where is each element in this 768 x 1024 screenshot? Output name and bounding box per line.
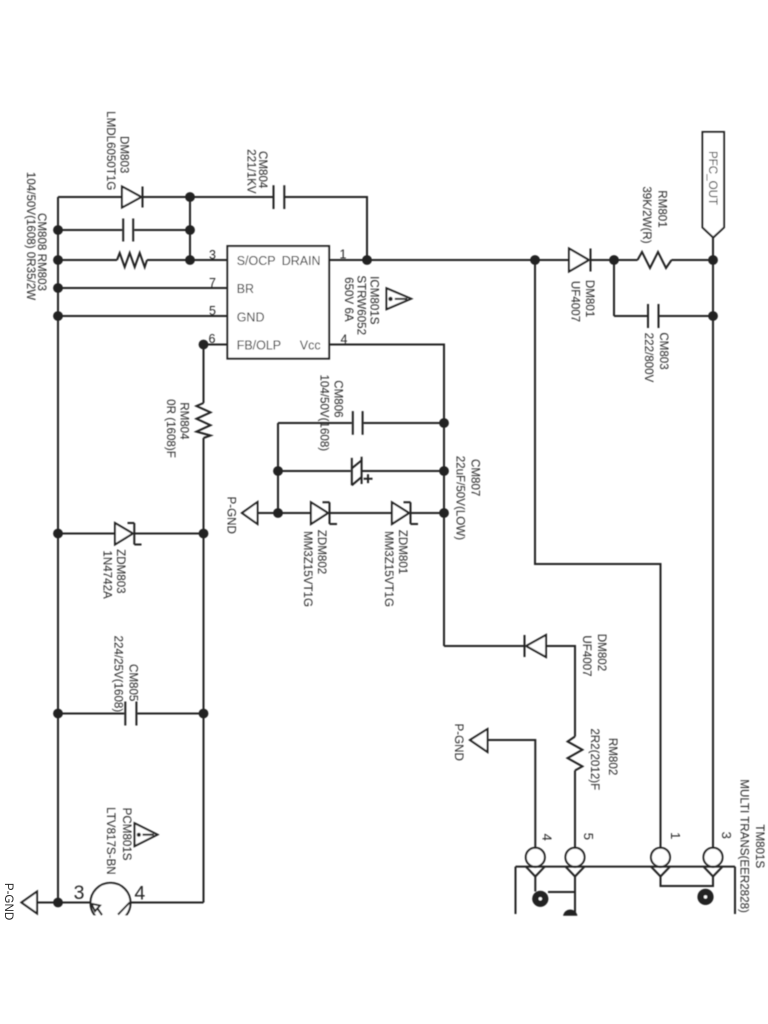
svg-text:MM3Z15VT1G: MM3Z15VT1G	[382, 531, 395, 607]
svg-text:CM806: CM806	[332, 380, 345, 417]
svg-text:1: 1	[668, 832, 683, 839]
svg-text:ICM801S: ICM801S	[368, 276, 381, 325]
svg-text:1N4742A: 1N4742A	[101, 550, 114, 599]
svg-text:5: 5	[581, 833, 596, 840]
svg-text:224/25V(1608): 224/25V(1608)	[112, 636, 125, 713]
svg-text:RM804: RM804	[178, 402, 191, 440]
svg-text:PCM801S: PCM801S	[120, 808, 133, 861]
svg-text:DM803: DM803	[117, 136, 130, 173]
svg-text:7: 7	[209, 276, 216, 290]
svg-text:3: 3	[719, 832, 734, 839]
svg-text:ZDM801: ZDM801	[396, 530, 409, 574]
svg-text:S/OCP: S/OCP	[237, 254, 276, 268]
svg-text:Vcc: Vcc	[300, 339, 321, 353]
svg-text:222/800V: 222/800V	[642, 333, 655, 383]
svg-text:DRAIN: DRAIN	[282, 254, 321, 268]
svg-text:LTV817S-BN: LTV817S-BN	[104, 807, 117, 874]
svg-text:22uF/50V(LOW): 22uF/50V(LOW)	[454, 456, 467, 541]
svg-text:3: 3	[209, 248, 216, 262]
svg-text:CM807: CM807	[469, 459, 482, 496]
svg-text:UF4007: UF4007	[580, 635, 593, 676]
svg-text:4: 4	[134, 883, 145, 905]
svg-text:RM801: RM801	[656, 190, 669, 227]
svg-text:STRW6052: STRW6052	[355, 275, 368, 335]
svg-text:5: 5	[209, 304, 216, 318]
svg-text:3: 3	[74, 882, 85, 904]
svg-text:P-GND: P-GND	[452, 724, 465, 761]
svg-text:104/50V(1608): 104/50V(1608)	[318, 374, 331, 451]
svg-text:MULTI TRANS(EER2828): MULTI TRANS(EER2828)	[737, 779, 750, 913]
svg-text:ZDM802: ZDM802	[315, 530, 328, 574]
svg-text:CM803: CM803	[657, 332, 670, 369]
svg-text:ZDM803: ZDM803	[114, 549, 127, 593]
svg-text:MM3Z15VT1G: MM3Z15VT1G	[301, 531, 314, 607]
svg-text:39K/2W(R): 39K/2W(R)	[640, 186, 653, 243]
svg-text:RM802: RM802	[606, 738, 619, 775]
svg-text:0R (1608)F: 0R (1608)F	[164, 399, 177, 458]
svg-text:650V 6A: 650V 6A	[342, 277, 355, 322]
svg-text:P-GND: P-GND	[224, 497, 237, 534]
svg-text:BR: BR	[237, 282, 254, 296]
svg-text:6: 6	[209, 332, 216, 346]
svg-text:4: 4	[540, 834, 555, 841]
svg-text:LMDL6050T1G: LMDL6050T1G	[104, 111, 117, 190]
svg-text:PFC_OUT: PFC_OUT	[706, 151, 719, 205]
svg-text:CM805: CM805	[126, 664, 139, 701]
svg-text:4: 4	[341, 333, 348, 347]
svg-text:1: 1	[340, 248, 347, 262]
svg-text:221/1KV: 221/1KV	[244, 149, 257, 194]
svg-text:FB/OLP: FB/OLP	[237, 339, 281, 353]
svg-text:UF4007: UF4007	[569, 281, 582, 322]
svg-text:2R2(2012)F: 2R2(2012)F	[588, 728, 601, 790]
svg-text:P-GND: P-GND	[2, 883, 15, 920]
svg-text:104/50V(1608) 0R35/2W: 104/50V(1608) 0R35/2W	[24, 172, 37, 300]
svg-text:DM802: DM802	[595, 634, 608, 671]
svg-text:GND: GND	[237, 310, 265, 324]
svg-text:TM801S: TM801S	[753, 824, 766, 868]
svg-text:DM801: DM801	[583, 280, 596, 317]
